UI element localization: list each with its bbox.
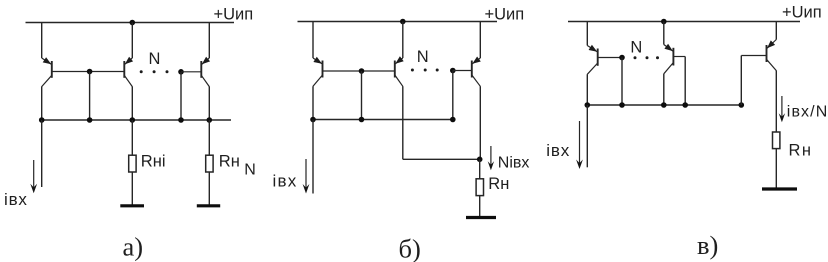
node: base junction (a) (87, 69, 93, 75)
node dots on bus (б) (310, 117, 455, 123)
transistor Q3 (a) (201, 23, 210, 121)
svg-text:N: N (630, 39, 642, 57)
node dots on bus (в) (585, 102, 745, 108)
svg-text:Rн: Rн (488, 175, 509, 193)
node: rail junction a (130, 20, 136, 26)
ground under Rн N (197, 204, 220, 207)
wire: input terminal (a) (41, 120, 43, 187)
wire: Q9 base drop (в) (740, 56, 742, 106)
wire: base to Q3 bar (a) (181, 71, 201, 73)
arrow: input current iвх (б) (303, 159, 310, 194)
transistor Q6 (б) (472, 22, 481, 160)
wire: base drop to bus (б) (361, 71, 363, 120)
svg-text:N: N (149, 50, 161, 68)
transistor Q2 (a) (124, 23, 133, 121)
svg-text:Rн: Rн (789, 141, 813, 159)
svg-text:iвх: iвх (546, 141, 570, 160)
wire: common bus (в) (587, 104, 741, 106)
svg-text:iвх: iвх (4, 190, 28, 209)
wire: Q8 base drop (в) (684, 57, 686, 106)
svg-text:б): б) (399, 234, 421, 262)
transistor Q8 (в) (664, 22, 674, 106)
wire: base drop QN to bus (б) (452, 71, 454, 120)
arrow: input current iвх (в) (576, 121, 583, 169)
wire: Q9 base left (в) (741, 55, 766, 57)
svg-text:Rнi: Rнi (141, 153, 166, 171)
arrow: output current Niвх (б) (488, 146, 494, 170)
wire: input terminal (в) (586, 105, 588, 167)
supply rail +Uип circuit в (568, 21, 800, 23)
svg-text:N: N (417, 48, 429, 66)
node: base junction (в) (619, 55, 625, 61)
wire: base drop (в) (621, 58, 623, 106)
svg-text:Niвх: Niвх (498, 155, 530, 172)
wire: bottom bus (a) (42, 119, 231, 121)
supply rail +Uип circuit a (26, 22, 235, 24)
wire: input terminal (б) (312, 120, 314, 194)
ground under Rнi (120, 204, 144, 207)
arrow: output current iвх/N (в) (779, 96, 785, 122)
svg-text:N: N (244, 161, 256, 178)
label Rн N (219, 153, 256, 179)
transistor Q4 (б) (313, 22, 323, 120)
dotted base continuation (б) (411, 69, 439, 72)
wire: base drop QN to bus (a) (180, 72, 182, 120)
wire: output link Q5 collector (б) (403, 158, 480, 160)
wire: base drop to bus (a) (89, 72, 91, 121)
svg-text:Rн: Rн (219, 153, 240, 171)
resistor Rн (б) (476, 159, 483, 216)
wire: bottom bus (б) (313, 119, 453, 121)
node: rail junction в (661, 19, 667, 25)
node: output (б) (477, 157, 483, 163)
svg-text:а): а) (123, 232, 144, 262)
svg-text:в): в) (697, 230, 718, 260)
transistor Q7 (в) (587, 22, 597, 106)
ground (в) (762, 187, 797, 190)
arrow: input current iвх (a) (30, 160, 37, 193)
svg-text:+Uип: +Uип (782, 4, 822, 22)
dotted base continuation (в) (634, 56, 660, 59)
node: rail junction б (400, 19, 406, 25)
wire: Q8 base right (в) (673, 56, 685, 58)
wire: base bus Q1-Q2 (a) (52, 71, 124, 73)
node: base junction (б) (359, 68, 365, 74)
resistor Rн N (206, 120, 213, 205)
resistor Rн (в) (773, 132, 780, 188)
wire: base bus Q4-Q5 (б) (323, 70, 395, 72)
supply rail +Uип circuit б (298, 21, 498, 23)
svg-text:iвх/N: iвх/N (787, 103, 828, 120)
node dots on bus (a) (39, 117, 212, 123)
wire: base to Q6 bar (б) (453, 70, 472, 72)
ground (б) (466, 216, 496, 219)
dotted base continuation (a) (140, 70, 169, 73)
wire: Q7 base to junction (в) (598, 57, 622, 59)
transistor Q1 (a) (42, 23, 52, 121)
svg-text:+Uип: +Uип (485, 6, 525, 24)
transistor Q9 (в) (767, 22, 777, 133)
node: base junction QN (б) (450, 68, 456, 74)
resistor Rнi (129, 120, 136, 205)
node: base junction QN (a) (178, 69, 184, 75)
transistor Q5 (б) (395, 22, 404, 160)
svg-text:iвх: iвх (273, 172, 298, 191)
svg-text:+Uип: +Uип (214, 6, 254, 24)
